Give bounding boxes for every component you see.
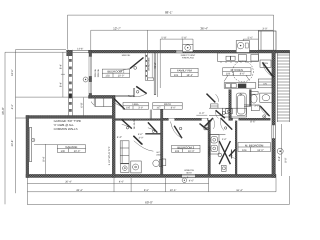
dim line family room 18-4 — [157, 53, 159, 97]
wall top main — [89, 50, 290, 53]
door pantry — [262, 62, 273, 77]
doors wic x — [218, 141, 232, 164]
svg-text:20'-0": 20'-0" — [74, 150, 81, 153]
dim leader garage label — [34, 144, 57, 146]
dim extension at x160 — [159, 39, 161, 88]
water heater closet — [236, 41, 249, 53]
svg-text:36'-4": 36'-4" — [200, 27, 208, 31]
wall house left — [89, 50, 92, 98]
svg-text:M. BEDROOM: M. BEDROOM — [245, 143, 264, 147]
dim line porch interior — [62, 52, 64, 97]
dim line entry 6-8 — [83, 98, 85, 116]
kitchen counter top — [218, 53, 259, 62]
dim tick line garage top — [16, 117, 27, 119]
dim line house width 56ft — [91, 29, 274, 31]
svg-text:14'-8": 14'-8" — [77, 47, 83, 50]
wall laundry closet — [120, 141, 129, 164]
svg-text:8'-0": 8'-0" — [171, 107, 176, 110]
svg-text:88'-1": 88'-1" — [165, 10, 173, 14]
window seat bed3 — [182, 174, 196, 178]
dim tick fireplace left — [182, 39, 184, 44]
svg-text:8'-4": 8'-4" — [59, 64, 62, 69]
dim line fireplace 5-8 5-8 — [160, 38, 193, 40]
svg-text:8'-0": 8'-0" — [240, 73, 245, 76]
window left of fireplace — [176, 50, 183, 52]
svg-text:105: 105 — [126, 107, 131, 110]
svg-text:W.I.CLOS: W.I.CLOS — [133, 118, 136, 129]
svg-text:5'-0": 5'-0" — [138, 133, 143, 136]
dim extension bottom left corner — [26, 178, 28, 205]
dim extension at x165 — [165, 178, 167, 192]
svg-text:10'-0": 10'-0" — [188, 150, 195, 153]
door hall-bath — [148, 122, 157, 132]
wic fixture — [222, 165, 227, 171]
porch post — [83, 77, 88, 82]
wall mbath west — [208, 120, 210, 174]
door bath2 — [260, 106, 270, 118]
wall closet east / familyrm west — [154, 53, 156, 95]
svg-text:WARDROBE: WARDROBE — [148, 57, 151, 71]
svg-text:16'-4": 16'-4" — [236, 189, 243, 192]
svg-text:6'-8": 6'-8" — [80, 102, 83, 107]
svg-text:KITCHEN: KITCHEN — [231, 68, 243, 72]
svg-text:60'-0": 60'-0" — [145, 200, 153, 204]
svg-text:3050 SH: 3050 SH — [97, 68, 100, 77]
svg-text:104: 104 — [242, 149, 247, 152]
dim line left inner — [15, 50, 17, 194]
washer dryer — [121, 161, 142, 173]
svg-text:4'-6": 4'-6" — [119, 181, 124, 184]
wall porch west — [68, 50, 72, 116]
bay bump top right — [258, 31, 276, 50]
dim tick line entry top — [71, 96, 89, 98]
svg-text:36'-0": 36'-0" — [1, 107, 5, 115]
svg-text:102: 102 — [105, 75, 110, 78]
svg-text:5'-8": 5'-8" — [182, 36, 187, 39]
door mbr — [229, 149, 235, 158]
svg-text:5'-8": 5'-8" — [161, 36, 166, 39]
svg-text:20'-4": 20'-4" — [65, 180, 72, 183]
wall laundry north — [115, 119, 160, 121]
svg-text:103: 103 — [175, 150, 180, 153]
svg-text:13'-0": 13'-0" — [257, 149, 264, 152]
dim line garage interior — [45, 144, 47, 174]
door bath3 — [134, 136, 154, 151]
svg-text:4'-0": 4'-0" — [222, 138, 227, 141]
linen right — [258, 79, 272, 88]
wall mbr north — [231, 118, 270, 121]
fireplace — [183, 44, 193, 52]
door bed2 — [119, 58, 144, 72]
svg-text:GARAGE: GARAGE — [65, 145, 77, 149]
dim extension at x114 — [113, 178, 115, 192]
dim tick porch middle — [61, 73, 65, 75]
mbath vanity — [210, 135, 226, 154]
wall bath3 south — [145, 133, 160, 135]
svg-text:3'-0": 3'-0" — [138, 107, 143, 110]
svg-text:SEAT: SEAT — [186, 171, 192, 174]
dim extension bottom right corner — [288, 176, 290, 205]
label bedroom2 — [102, 69, 129, 77]
wall bottom main — [26, 174, 276, 177]
svg-text:12'-7": 12'-7" — [113, 27, 121, 31]
svg-text:16'-0": 16'-0" — [11, 69, 14, 76]
svg-text:18'-2": 18'-2" — [186, 74, 193, 77]
door kitchen-hall upper — [207, 94, 219, 103]
label bath — [153, 103, 182, 110]
wall hall/bed3 north — [163, 118, 208, 121]
dim line bottom row3 60ft — [27, 203, 289, 205]
porch header beam — [73, 51, 89, 53]
svg-text:BEDROOM 3: BEDROOM 3 — [177, 145, 194, 149]
svg-text:6'-0": 6'-0" — [199, 112, 204, 115]
dim tick water heater — [242, 39, 244, 41]
svg-text:18'-4": 18'-4" — [154, 62, 157, 69]
label garage — [57, 145, 85, 153]
vanity bath2 — [260, 93, 272, 102]
door kitchen-hall lower — [216, 110, 226, 118]
cabinet right of tub — [251, 105, 259, 111]
label hall — [123, 103, 149, 110]
svg-text:BEDROOM 2: BEDROOM 2 — [108, 69, 125, 73]
door bed2 entry — [128, 86, 147, 96]
dim line overall width 88ft — [68, 14, 274, 16]
porch wall top corner blob — [67, 50, 72, 56]
dim tick line porch bottom — [16, 96, 72, 98]
svg-text:28'-4": 28'-4" — [76, 189, 83, 192]
dim extension right of overall width — [273, 15, 275, 30]
kitchen lower counter — [209, 108, 247, 117]
dim tick line top left upper — [16, 49, 67, 51]
svg-text:8'-4": 8'-4" — [42, 156, 45, 161]
dim line water heater 5-6 — [243, 38, 258, 40]
dim extension at x90 — [90, 30, 92, 50]
svg-text:4'-0": 4'-0" — [117, 136, 122, 139]
garage side door — [29, 128, 35, 162]
door bed3 right — [200, 124, 208, 130]
svg-text:10'-6": 10'-6" — [170, 189, 177, 192]
toilet bath2 — [250, 92, 258, 104]
svg-text:20'-8": 20'-8" — [11, 140, 14, 147]
label mbedroom — [238, 143, 270, 152]
dim tick fireplace right — [192, 39, 194, 44]
wall garage top — [26, 116, 115, 119]
wall bedroom3 west — [161, 110, 163, 175]
svg-text:101: 101 — [174, 74, 179, 77]
wall garage right — [112, 97, 115, 178]
dim line bottom row2 — [27, 191, 276, 193]
door bed3 left — [171, 122, 183, 139]
wall bath2 west — [229, 90, 232, 121]
svg-text:5'-0": 5'-0" — [246, 105, 251, 108]
shelf bed3 wall — [161, 159, 166, 166]
svg-text:100: 100 — [61, 150, 66, 153]
svg-text:FIREPLACE: FIREPLACE — [182, 57, 195, 60]
svg-text:10'-0": 10'-0" — [118, 75, 125, 78]
label kitchen — [223, 68, 251, 76]
dim line right side — [281, 124, 283, 176]
svg-text:SHOWER: SHOWER — [208, 146, 211, 157]
door laundry lower — [133, 136, 141, 144]
svg-text:3'-0": 3'-0" — [262, 28, 267, 31]
wall hall closet — [150, 110, 151, 121]
svg-text:8'-4": 8'-4" — [59, 82, 62, 87]
svg-text:5'-6": 5'-6" — [248, 36, 253, 39]
dim extension at x131 — [130, 178, 132, 192]
window tag circle — [182, 178, 187, 183]
kitchen dashed circle — [233, 61, 254, 82]
wall house right — [272, 50, 276, 177]
kitchen island — [224, 83, 256, 89]
door garage-hall — [114, 98, 125, 109]
svg-text:4'-2": 4'-2" — [11, 104, 14, 109]
dim extension at x258 — [257, 29, 259, 32]
entry closet — [95, 98, 112, 106]
dim tick line top left lower — [5, 51, 66, 53]
svg-text:3050 SH: 3050 SH — [94, 68, 97, 77]
label bedroom3 — [172, 145, 200, 152]
entry door small — [91, 98, 94, 107]
svg-text:107: 107 — [156, 107, 161, 110]
svg-text:3'-0": 3'-0" — [139, 137, 144, 140]
svg-text:5040 SH: 5040 SH — [122, 54, 131, 57]
svg-text:3'-6": 3'-6" — [278, 156, 281, 161]
label mbath small — [211, 104, 219, 108]
dim extension at x147 — [147, 30, 149, 50]
wall bath2 east — [244, 90, 251, 107]
wall bedroom2 south — [89, 95, 115, 98]
dim line overall height 36ft — [4, 52, 6, 204]
doors mbath double — [205, 118, 233, 131]
svg-text:106: 106 — [226, 73, 231, 76]
pantry right — [260, 60, 271, 67]
dim line bedroom3 door 6-0 — [196, 114, 207, 116]
svg-text:COMMON WALLS: COMMON WALLS — [54, 127, 78, 131]
svg-text:8'-0": 8'-0" — [285, 157, 288, 162]
wall garage left — [26, 116, 29, 178]
dim extension left of overall width — [67, 15, 69, 50]
svg-text:FAMILY RM: FAMILY RM — [177, 69, 192, 73]
toilet bath3 — [153, 160, 162, 167]
dim extension at x208 — [208, 178, 210, 192]
tub bath2 — [236, 93, 246, 116]
fan mbr — [277, 148, 283, 154]
label familyrm — [171, 68, 198, 76]
wall bedroom2 south thin part — [115, 89, 135, 97]
svg-text:3 1/2" STUD TYP: 3 1/2" STUD TYP — [108, 146, 111, 165]
wall bed2 closet — [145, 53, 153, 81]
svg-text:8'-6": 8'-6" — [250, 121, 255, 124]
svg-text:4'-6": 4'-6" — [189, 180, 194, 183]
svg-text:8'-6": 8'-6" — [144, 189, 149, 192]
dim extension at x276 — [275, 178, 277, 192]
wall mbr west — [235, 120, 237, 174]
door hall-laundry — [122, 120, 132, 129]
dim line bottom row1 — [27, 183, 208, 185]
